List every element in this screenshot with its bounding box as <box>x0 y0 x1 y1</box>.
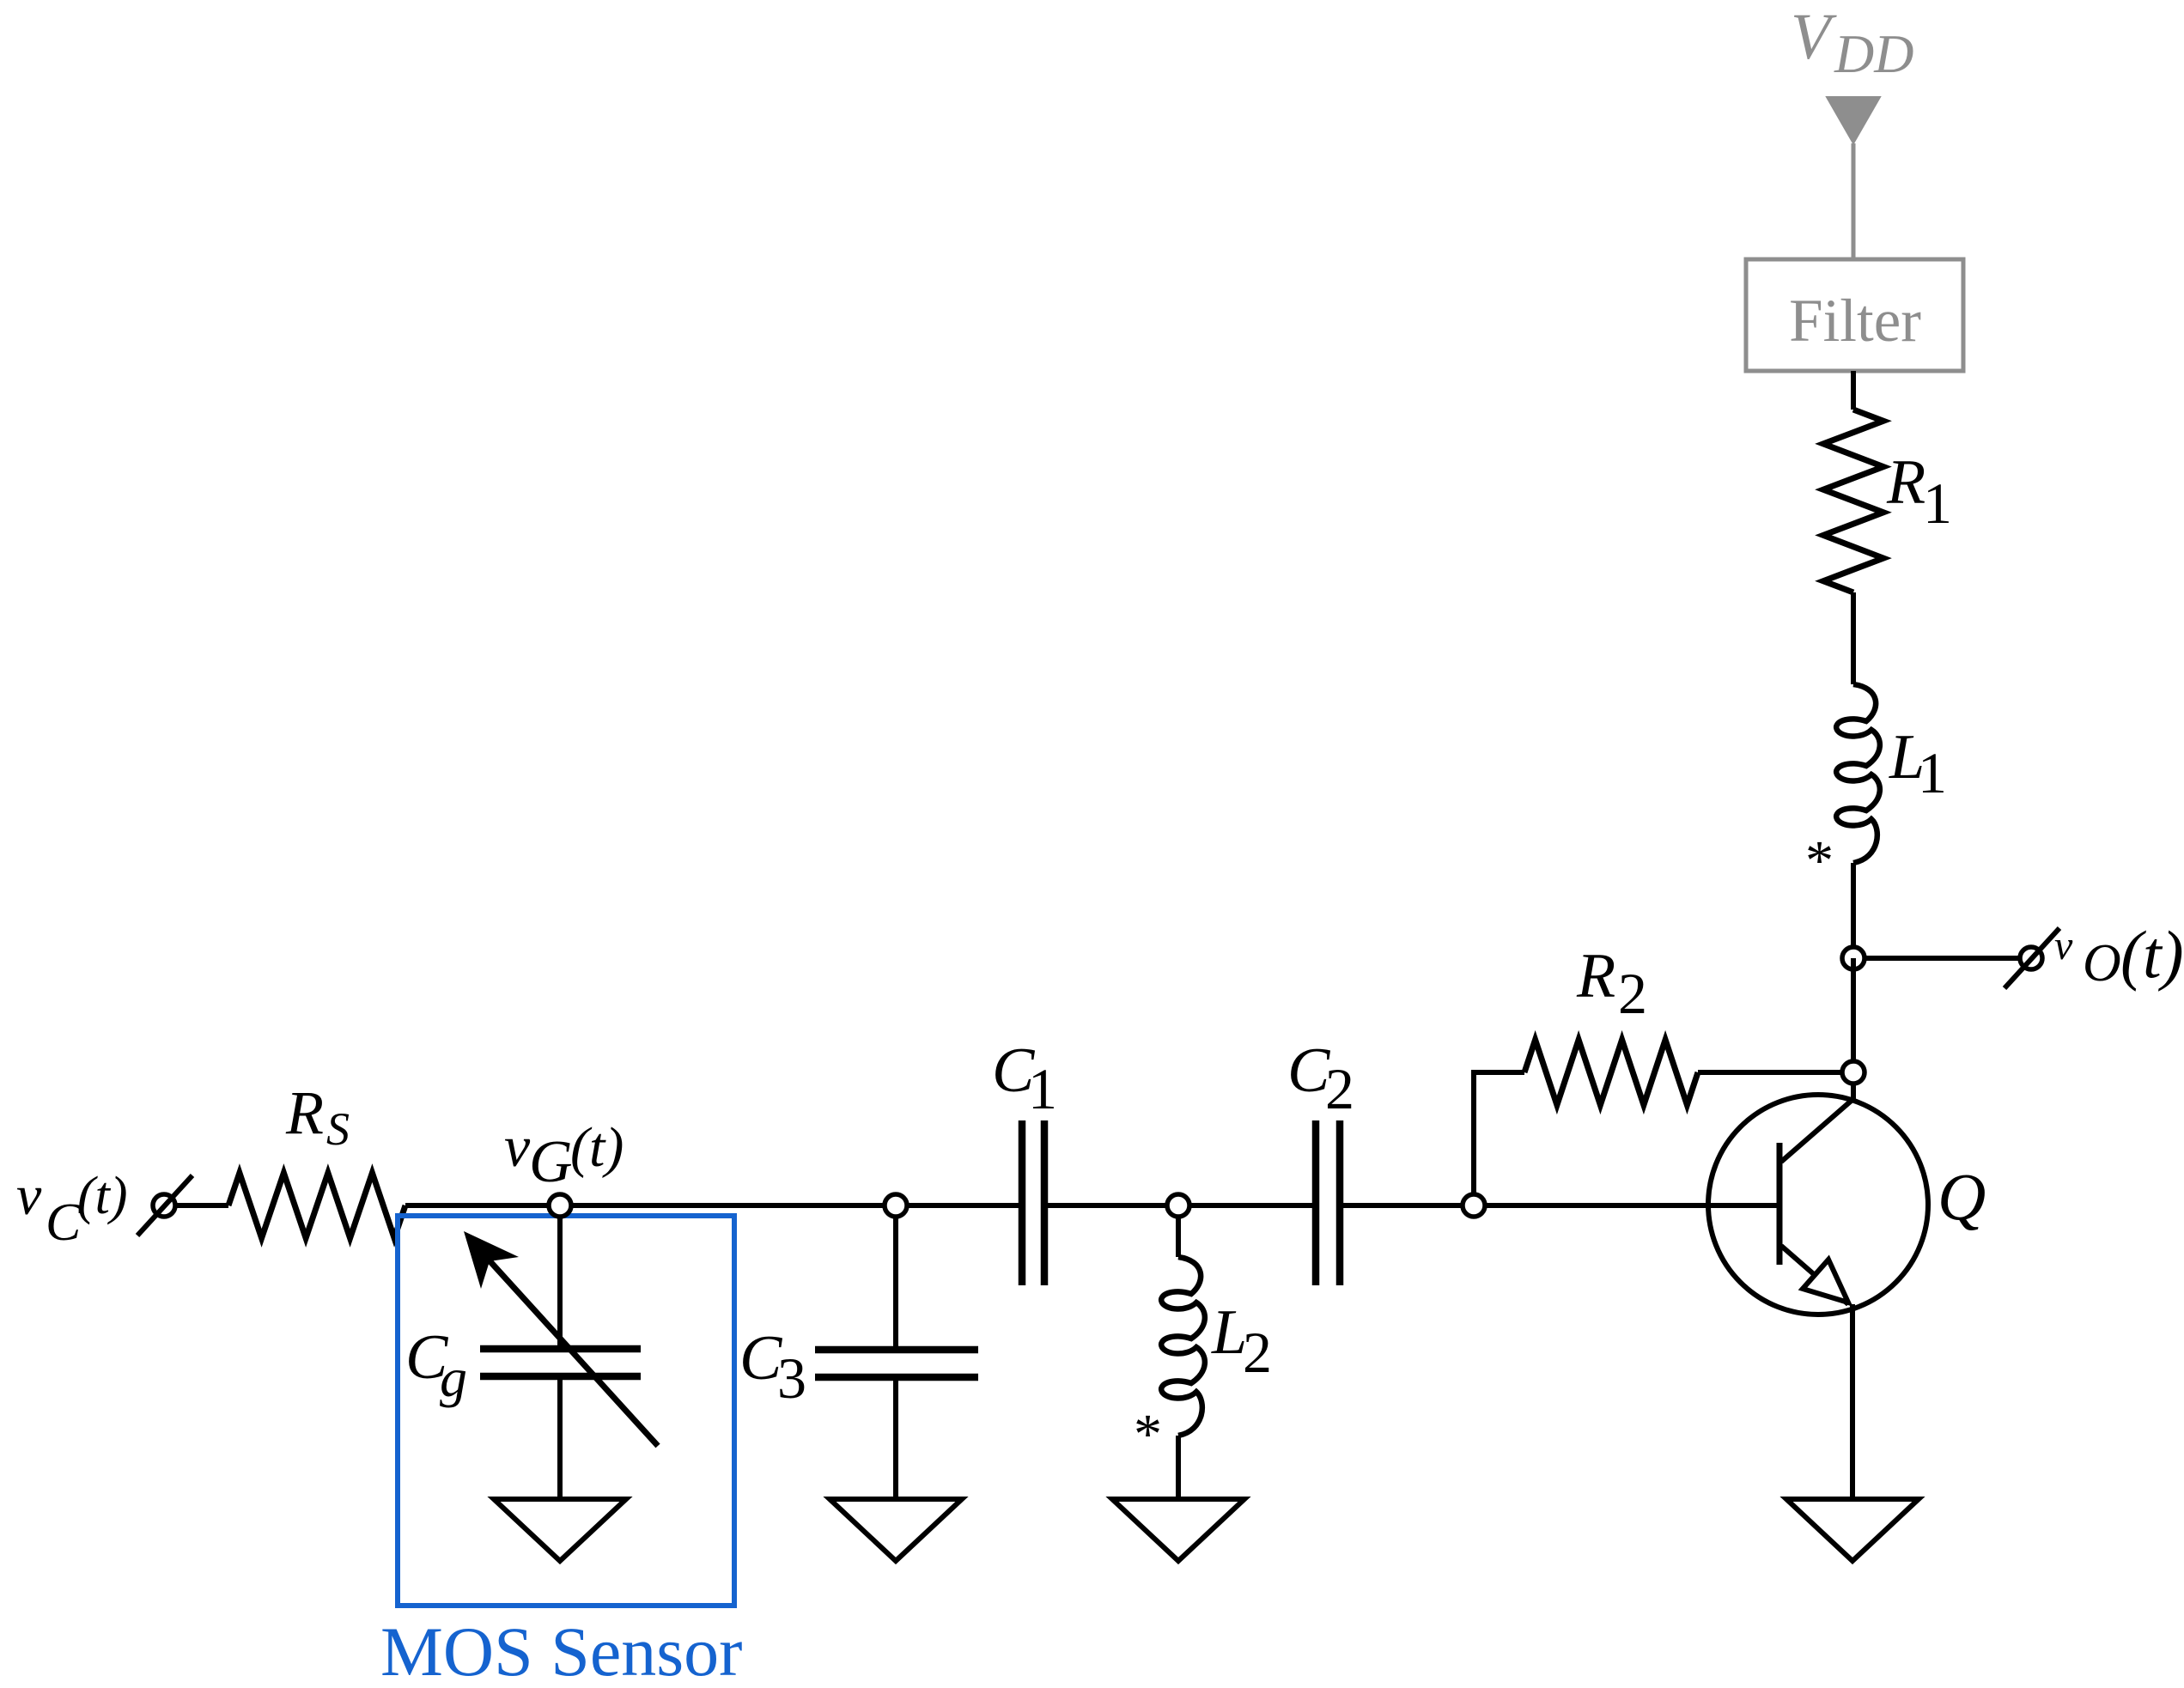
svg-text:v: v <box>504 1114 531 1179</box>
ground under Q <box>1786 1499 1919 1561</box>
resistor R2 with connecting wires <box>1474 1072 1524 1205</box>
svg-text:O: O <box>2083 934 2121 993</box>
svg-text:C: C <box>46 1193 82 1252</box>
svg-text:2: 2 <box>1243 1320 1272 1385</box>
svg-text:R: R <box>1576 941 1615 1011</box>
resistor RS <box>228 1173 405 1238</box>
svg-text:DD: DD <box>1834 23 1913 84</box>
svg-text:R: R <box>285 1078 324 1147</box>
wire collector node to transistor <box>1851 1072 1856 1102</box>
wire output node to collector node <box>1851 958 1856 1072</box>
wire vC terminal to RS <box>174 1203 228 1208</box>
MOS sensor box <box>398 1216 734 1606</box>
svg-text:L: L <box>1211 1297 1247 1368</box>
ground under L2 <box>1112 1499 1244 1561</box>
power VDD arrow symbol <box>1827 97 1880 143</box>
svg-text:(t): (t) <box>570 1116 624 1179</box>
inductor L2 <box>1176 1217 1181 1257</box>
resistor R1 <box>1823 410 1883 592</box>
svg-text:V: V <box>1791 1 1837 73</box>
node vG with label <box>549 1194 571 1217</box>
node L2 junction <box>1167 1194 1189 1217</box>
capacitor Cg (variable) <box>557 1217 563 1349</box>
svg-text:2: 2 <box>1618 961 1647 1026</box>
svg-text:(t): (t) <box>2120 917 2184 992</box>
wire R1 to L1 <box>1851 592 1856 684</box>
filter block <box>1746 259 1963 371</box>
svg-text:G: G <box>529 1129 573 1195</box>
node base <box>1463 1194 1485 1217</box>
capacitor C1 <box>1019 1120 1026 1285</box>
wire VDD to filter <box>1852 143 1856 259</box>
arrow of variable capacitor Cg <box>486 1257 658 1446</box>
svg-text:S: S <box>326 1103 350 1155</box>
svg-text:v: v <box>16 1164 42 1227</box>
wire L1 to output node <box>1851 863 1856 958</box>
terminal vC(t) <box>153 1194 175 1217</box>
svg-text:R: R <box>1886 447 1925 518</box>
svg-text:v: v <box>2054 923 2073 968</box>
node C3 junction <box>885 1194 907 1217</box>
svg-text:2: 2 <box>1325 1056 1354 1121</box>
ground under C3 <box>830 1499 962 1561</box>
node output <box>1842 947 1865 969</box>
svg-text:*: * <box>1134 1403 1162 1466</box>
svg-text:3: 3 <box>777 1345 806 1411</box>
inductor L1 <box>1836 684 1880 863</box>
capacitor C2 <box>1312 1120 1320 1285</box>
svg-text:1: 1 <box>1918 740 1947 805</box>
transistor Q <box>1708 1095 1928 1315</box>
capacitor C3 <box>893 1217 898 1350</box>
svg-text:1: 1 <box>1028 1056 1057 1121</box>
svg-text:g: g <box>440 1347 467 1408</box>
terminal vO(t) <box>2020 947 2042 969</box>
svg-text:Filter: Filter <box>1789 288 1921 355</box>
ground under Cg <box>494 1499 626 1561</box>
svg-text:MOS Sensor: MOS Sensor <box>380 1612 742 1688</box>
wire C2 to transistor base <box>1340 1203 1779 1208</box>
svg-text:Q: Q <box>1938 1159 1986 1234</box>
wire C1 to C2 <box>1044 1203 1316 1208</box>
wire output node to vO terminal <box>1853 956 2020 961</box>
wire RS to C1 <box>405 1203 1022 1208</box>
svg-text:1: 1 <box>1923 471 1952 536</box>
svg-text:*: * <box>1805 829 1834 892</box>
wire emitter to ground <box>1850 1304 1855 1499</box>
node collector <box>1842 1061 1865 1084</box>
wire filter to R1 <box>1851 371 1856 410</box>
svg-text:(t): (t) <box>77 1167 128 1225</box>
